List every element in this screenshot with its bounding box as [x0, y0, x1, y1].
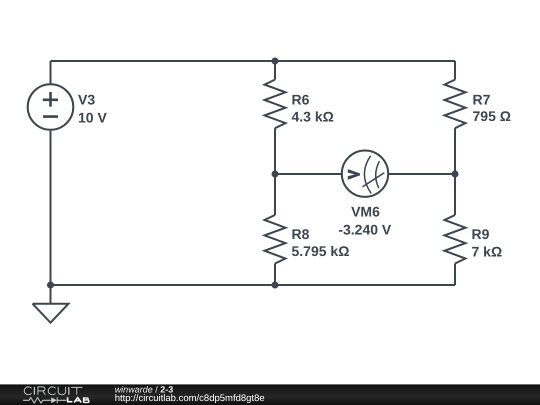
svg-text:5.795 kΩ: 5.795 kΩ — [292, 243, 350, 259]
CircuitLab logo LAB — [67, 397, 89, 402]
wire left column bottom (V3 to bottom rail) — [50, 130, 52, 286]
resistor R8 — [265, 215, 286, 264]
node junction dot top middle — [272, 58, 279, 65]
wire bottom rail — [51, 284, 456, 286]
wire R8 to bottom rail — [274, 264, 276, 286]
svg-text:V3: V3 — [78, 92, 95, 108]
svg-text:VM6: VM6 — [351, 204, 380, 220]
svg-text:4.3 kΩ: 4.3 kΩ — [292, 108, 334, 124]
CircuitLab logo schematic line — [23, 398, 51, 403]
CircuitLab logo CIRCUIT — [24, 387, 82, 395]
CircuitLab logo diode — [51, 397, 57, 403]
wire left column top (top rail to V3) — [50, 61, 52, 85]
svg-text:795 Ω: 795 Ω — [473, 108, 511, 124]
wire right column lead (top rail to R7) — [454, 61, 456, 80]
resistor R9 — [445, 215, 466, 264]
wire middle node to voltmeter — [275, 173, 342, 175]
svg-text:-3.240 V: -3.240 V — [338, 221, 392, 237]
wire right node to R9 — [454, 174, 456, 215]
node junction dot middle (R6/R8/VM) — [272, 171, 279, 178]
svg-text:10 V: 10 V — [78, 109, 107, 125]
svg-text:R9: R9 — [472, 226, 490, 242]
voltmeter VM6 — [342, 151, 388, 197]
node junction dot ground — [47, 282, 54, 289]
svg-text:R7: R7 — [473, 91, 491, 107]
wire top rail — [51, 60, 456, 62]
wire middle column lead (top rail to R6) — [274, 61, 276, 80]
ground — [33, 285, 69, 323]
wire voltmeter to right node — [388, 173, 455, 175]
wire R6 to middle node — [274, 128, 276, 174]
node junction dot right middle — [452, 171, 459, 178]
resistor R6 — [265, 80, 286, 129]
footer bar — [0, 384, 540, 405]
svg-text:R6: R6 — [292, 92, 310, 108]
voltage source V3 — [28, 84, 74, 130]
wire R9 to bottom rail — [454, 264, 456, 286]
svg-text:http://circuitlab.com/c8dp5mfd: http://circuitlab.com/c8dp5mfd8gt8e — [115, 393, 265, 404]
wire R7 to right middle node — [454, 128, 456, 174]
resistor R7 — [445, 80, 466, 129]
svg-text:7 kΩ: 7 kΩ — [472, 243, 503, 259]
wire middle node to R8 — [274, 174, 276, 215]
svg-text:R8: R8 — [292, 226, 310, 242]
node junction dot bottom middle — [272, 282, 279, 289]
